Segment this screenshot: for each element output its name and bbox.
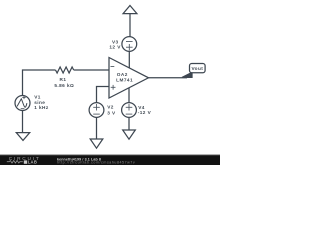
- svg-text:http://circuitlab.com/cmsahu84: http://circuitlab.com/cmsahu8457w7v: [57, 161, 135, 165]
- voltage source V2: [89, 103, 104, 118]
- power flag arrow (VCC node): [123, 6, 137, 14]
- resistor R1 zigzag: [56, 67, 74, 73]
- V1 sine squiggle: [17, 99, 27, 107]
- svg-text:R1: R1: [60, 77, 67, 82]
- labels: [34, 40, 203, 116]
- footer logo mark: [24, 160, 27, 163]
- svg-text:Vout: Vout: [191, 66, 203, 71]
- wire R1 to op-amp: [74, 69, 109, 71]
- op-amp OA2 LM741 body: [109, 58, 149, 99]
- polarity marks op-amp inputs: [111, 67, 116, 90]
- svg-text:LM741: LM741: [116, 78, 133, 83]
- wire input net: V1 to R1 to op-amp inverting input: [23, 70, 56, 96]
- svg-text:12 V: 12 V: [109, 44, 121, 49]
- wire flag to V3: [129, 14, 131, 37]
- wire V1 to ground: [22, 111, 24, 133]
- voltage source V1 sine: [15, 96, 30, 111]
- svg-text:3 V: 3 V: [107, 110, 116, 115]
- ground for V1: [16, 133, 29, 141]
- voltage source V3: [122, 37, 137, 52]
- wire V2 to op-amp non-inverting input: [97, 87, 110, 103]
- wire V2 to ground: [96, 117, 98, 139]
- svg-text:5.86 kΩ: 5.86 kΩ: [54, 83, 74, 88]
- svg-text:OA2: OA2: [117, 72, 128, 77]
- svg-text:-12 V: -12 V: [138, 110, 152, 115]
- svg-text:LAB: LAB: [28, 160, 38, 165]
- polarity marks V2 (plus top, minus bottom): [93, 104, 100, 114]
- svg-text:V2: V2: [107, 105, 114, 110]
- polarity marks V1 (plus top, minus bottom): [21, 96, 26, 109]
- ground for V2: [90, 139, 103, 148]
- polarity marks V4 (plus top, minus bottom): [126, 104, 133, 114]
- footer logo resistor squiggle: [7, 161, 23, 164]
- Vout label box: [190, 64, 206, 73]
- wire op-amp to V4: [128, 88, 130, 103]
- wire V3 to op-amp V+: [128, 51, 130, 68]
- svg-text:1 kHz: 1 kHz: [34, 105, 49, 110]
- voltage source V4: [122, 103, 137, 118]
- Vout flag pointer: [182, 72, 192, 77]
- polarity marks V3 (minus top, plus bottom): [126, 42, 133, 51]
- ground for V4: [123, 130, 136, 139]
- wire op-amp output to Vout: [149, 77, 188, 79]
- wire V4 to ground: [128, 117, 130, 130]
